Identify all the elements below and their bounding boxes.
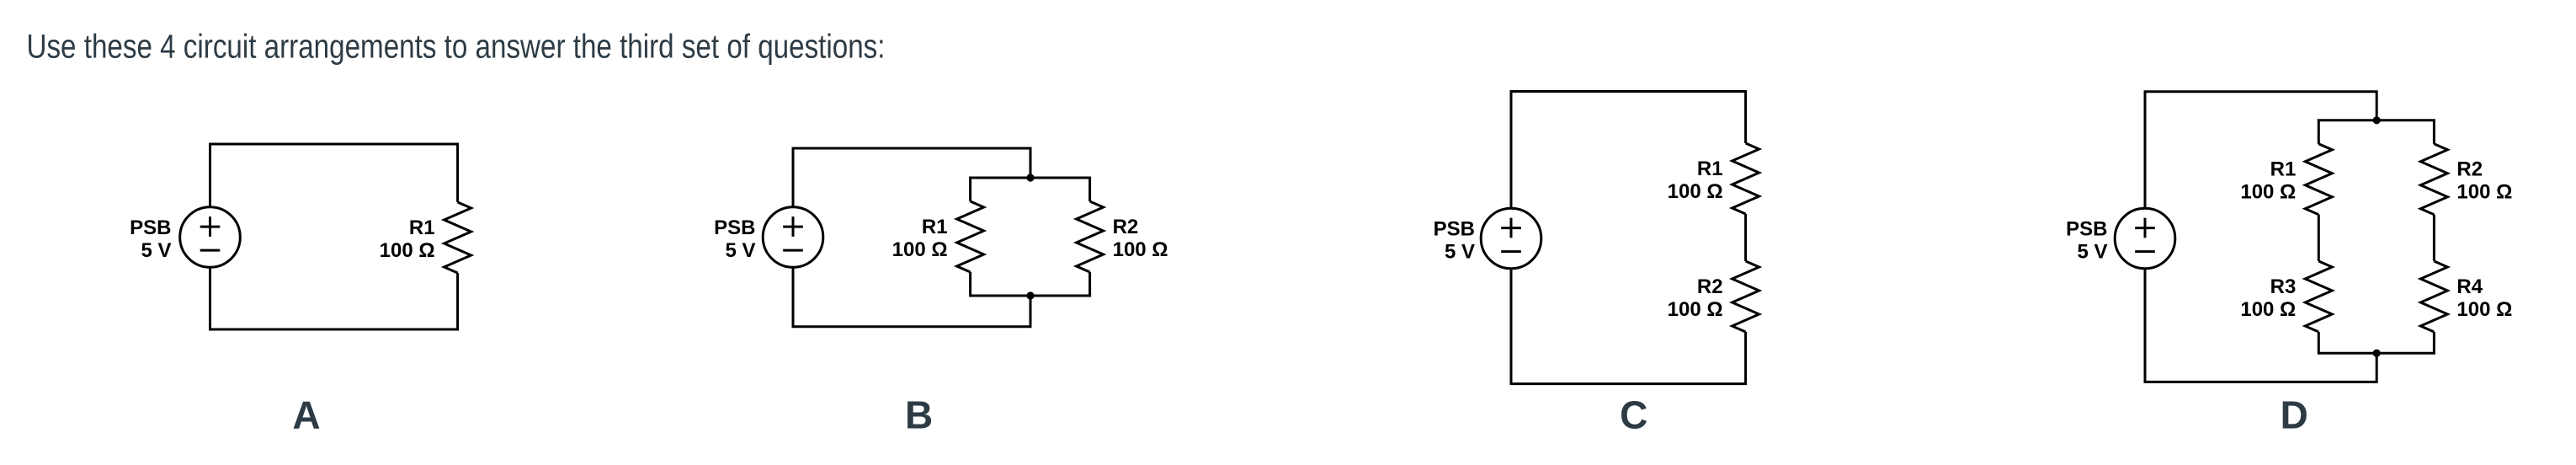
svg-text:PSB: PSB — [1434, 218, 1475, 241]
svg-text:PSB: PSB — [130, 216, 171, 239]
svg-text:100 Ω: 100 Ω — [1668, 298, 1723, 321]
svg-text:R1: R1 — [922, 216, 948, 238]
svg-text:100 Ω: 100 Ω — [2240, 298, 2296, 321]
node: circuit D bottom junction dot — [2373, 350, 2381, 357]
voltage source PSB circuit C — [1481, 208, 1541, 269]
svg-text:D: D — [2281, 393, 2308, 436]
svg-text:A: A — [292, 393, 320, 436]
wire: circuit C bottom loop (R2 bottom to source bottom) — [1511, 269, 1746, 384]
svg-text:R1: R1 — [2270, 158, 2297, 181]
svg-text:R2: R2 — [1697, 275, 1723, 298]
wire: circuit B parallel bottom rail — [971, 272, 1090, 296]
svg-text:100 Ω: 100 Ω — [2456, 298, 2512, 321]
voltage source PSB circuit B — [763, 207, 823, 268]
svg-text:R1: R1 — [409, 216, 435, 239]
svg-text:R3: R3 — [2270, 275, 2297, 298]
voltage source PSB circuit A — [180, 207, 241, 268]
svg-text:R2: R2 — [2456, 158, 2483, 181]
svg-text:R4: R4 — [2456, 275, 2483, 298]
resistor R1 circuit C — [1732, 143, 1759, 214]
svg-text:100 Ω: 100 Ω — [892, 238, 948, 261]
resistor R1 circuit B — [957, 201, 984, 272]
resistor R1 circuit D — [2305, 144, 2332, 215]
wire: circuit C middle (R1 bottom to R2 top) — [1744, 214, 1747, 261]
svg-text:PSB: PSB — [2066, 218, 2107, 241]
resistor R4 circuit D — [2420, 261, 2447, 332]
svg-text:5 V: 5 V — [725, 239, 755, 262]
wire: circuit A top loop (source top to resistor top) — [210, 144, 458, 207]
wire: circuit A bottom loop (resistor bottom to source bottom) — [210, 267, 458, 329]
svg-text:Use these 4 circuit arrangemen: Use these 4 circuit arrangements to answ… — [27, 28, 886, 65]
wire: circuit B top (source top to top junction) — [793, 148, 1030, 207]
svg-text:R1: R1 — [1697, 158, 1723, 180]
resistor R2 circuit B — [1077, 201, 1104, 272]
svg-text:5 V: 5 V — [141, 239, 171, 262]
svg-text:100 Ω: 100 Ω — [380, 239, 435, 262]
svg-text:100 Ω: 100 Ω — [2456, 181, 2512, 204]
svg-text:PSB: PSB — [714, 216, 755, 239]
wire: circuit D parallel top rail — [2318, 120, 2434, 144]
node: circuit B top junction dot — [1026, 174, 1034, 181]
svg-text:B: B — [905, 393, 933, 436]
svg-text:100 Ω: 100 Ω — [1668, 180, 1723, 203]
wire: circuit D top (source top to top junction) — [2145, 92, 2376, 208]
node: circuit D top junction dot — [2373, 116, 2381, 124]
wire: circuit B parallel top rail — [971, 178, 1090, 201]
wire: circuit D bottom (bottom junction to source bottom) — [2145, 269, 2376, 382]
wire: circuit C top loop (source top to R1 top) — [1511, 92, 1746, 209]
resistor R2 circuit C — [1732, 261, 1759, 332]
wire: circuit D right branch middle (R2 to R4) — [2433, 215, 2435, 261]
resistor R3 circuit D — [2305, 261, 2332, 332]
wire: circuit B bottom (bottom junction to source bottom) — [793, 267, 1030, 326]
svg-text:100 Ω: 100 Ω — [1113, 238, 1168, 261]
svg-text:C: C — [1620, 393, 1647, 436]
svg-text:5 V: 5 V — [2077, 241, 2107, 264]
voltage source PSB circuit D — [2115, 208, 2175, 269]
svg-text:R2: R2 — [1113, 216, 1139, 238]
svg-text:100 Ω: 100 Ω — [2240, 181, 2296, 204]
resistor R2 circuit D — [2420, 144, 2447, 215]
wire: circuit D parallel bottom rail — [2318, 332, 2434, 353]
svg-text:5 V: 5 V — [1445, 241, 1475, 264]
resistor R1 circuit A — [444, 202, 471, 273]
wire: circuit D left branch middle (R1 to R3) — [2318, 215, 2320, 261]
node: circuit B bottom junction dot — [1026, 291, 1034, 299]
